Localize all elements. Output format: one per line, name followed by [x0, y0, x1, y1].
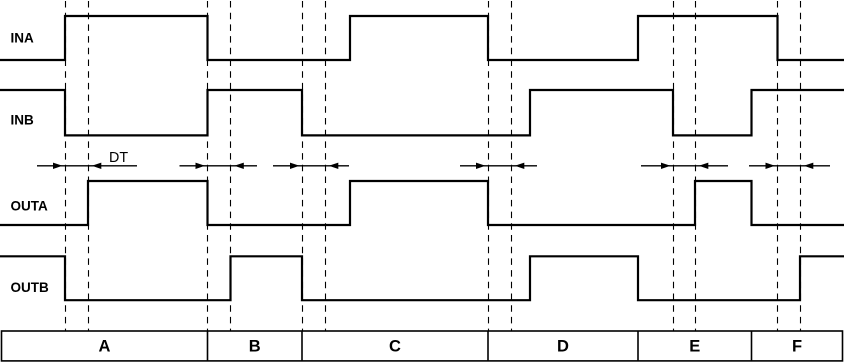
svg-text:A: A [99, 338, 111, 356]
svg-text:OUTA: OUTA [11, 199, 48, 214]
svg-text:B: B [249, 338, 261, 356]
svg-text:OUTB: OUTB [11, 280, 49, 295]
svg-text:F: F [792, 338, 802, 356]
svg-text:E: E [689, 338, 700, 356]
svg-text:INB: INB [11, 113, 35, 128]
svg-text:DT: DT [109, 150, 128, 166]
svg-text:C: C [389, 338, 401, 356]
svg-text:INA: INA [11, 30, 35, 45]
svg-text:D: D [557, 338, 569, 356]
